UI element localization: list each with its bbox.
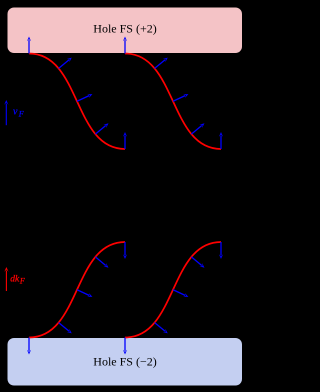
svg-text:dkF: dkF — [10, 275, 25, 286]
velocity arrow S2-5 — [219, 132, 223, 149]
svg-text:Hole FS (+2): Hole FS (+2) — [93, 21, 156, 35]
velocity arrow S4-3 — [173, 290, 188, 297]
velocity arrow S1-4 — [95, 123, 108, 134]
velocity arrow S3-5 — [123, 242, 127, 259]
velocity arrow S1-3 — [77, 94, 92, 101]
svg-text:vF: vF — [13, 107, 24, 119]
velocity arrow S4-4 — [191, 257, 204, 268]
vF arrow — [4, 100, 8, 125]
velocity arrow S3-4 — [95, 257, 108, 268]
hole FS +2 box — [8, 8, 243, 54]
velocity arrow S3-2 — [59, 323, 72, 334]
velocity arrow S2-4 — [191, 123, 204, 134]
velocity arrow S2-3 — [173, 94, 188, 101]
dkF arrow — [4, 267, 8, 291]
velocity arrow S1-1 — [27, 37, 31, 54]
velocity arrow S4-1 — [123, 338, 127, 355]
velocity arrow S4-5 — [219, 242, 223, 259]
red S-curve S3 — [29, 242, 125, 338]
red S-curve S4 — [125, 242, 221, 338]
velocity arrow S1-5 — [123, 132, 127, 149]
velocity arrow S2-2 — [155, 58, 168, 69]
red S-curve S1 — [29, 54, 125, 150]
velocity arrow S3-1 — [27, 338, 31, 355]
red S-curve S2 — [125, 54, 221, 150]
velocity arrow S4-2 — [155, 323, 168, 334]
hole FS -2 box — [8, 338, 243, 386]
svg-text:Hole FS (−2): Hole FS (−2) — [93, 355, 156, 369]
velocity arrow S1-2 — [59, 58, 72, 69]
velocity arrow S2-1 — [123, 37, 127, 54]
velocity arrow S3-3 — [77, 290, 92, 297]
